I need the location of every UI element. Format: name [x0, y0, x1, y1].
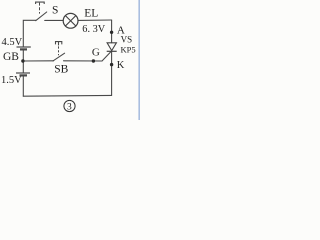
wire: switch S right contact to lamp: [45, 19, 64, 21]
background: [0, 0, 143, 120]
svg-text:VS: VS: [121, 35, 133, 45]
battery GB cell1 long plate: [17, 46, 31, 48]
wire: gate angled lead to thyristor: [102, 51, 111, 61]
battery GB cell2 short thick plate: [20, 74, 28, 76]
lamp EL circle: [63, 13, 78, 28]
battery GB cell2 long plate: [16, 72, 30, 74]
wire: lamp to top-right corner: [78, 19, 111, 21]
wire: right vertical cathode segment to bottom: [111, 51, 113, 95]
wire: top-left corner to switch S left contact: [23, 20, 35, 47]
svg-text:G: G: [92, 47, 100, 59]
node K dot: [110, 63, 113, 66]
push-button SB blade: [53, 53, 65, 61]
battery GB cell1 short thick plate: [20, 48, 27, 50]
wire: bottom horizontal: [23, 94, 111, 97]
thyristor VS cathode bar: [107, 50, 117, 52]
node G dot: [92, 59, 95, 62]
node junction dot between cells: [21, 59, 24, 62]
figure number circle 3: [64, 100, 75, 111]
wire: left vertical between cells through junction: [22, 50, 24, 73]
svg-text:4.5V: 4.5V: [2, 37, 23, 48]
lamp EL cross: [65, 16, 75, 26]
push-button SB dashed link: [58, 46, 60, 55]
switch S actuator bar: [36, 2, 45, 4]
svg-text:6. 3V: 6. 3V: [82, 24, 105, 35]
svg-text:GB: GB: [3, 51, 19, 63]
svg-text:SB: SB: [54, 63, 68, 75]
node A dot: [110, 31, 113, 34]
wire: SB right contact to gate bend: [64, 60, 103, 62]
switch S actuator dashed stem: [39, 3, 41, 14]
wire: left vertical lower (cell2 to bottom wire): [22, 76, 24, 97]
switch S blade: [36, 12, 47, 21]
svg-text:KP5: KP5: [121, 44, 136, 54]
push-button SB stem: [58, 42, 60, 46]
svg-text:1.5V: 1.5V: [1, 75, 22, 86]
push-button SB actuator bar: [56, 42, 62, 45]
svg-text:3: 3: [67, 103, 72, 113]
svg-text:K: K: [117, 60, 125, 71]
page rule blue line: [138, 0, 140, 120]
svg-text:EL: EL: [84, 7, 98, 19]
wire: gate branch horizontal from junction to SB: [23, 60, 54, 62]
wire: right vertical anode segment: [111, 20, 113, 43]
thyristor VS triangle: [107, 43, 116, 51]
svg-text:S: S: [52, 5, 58, 17]
